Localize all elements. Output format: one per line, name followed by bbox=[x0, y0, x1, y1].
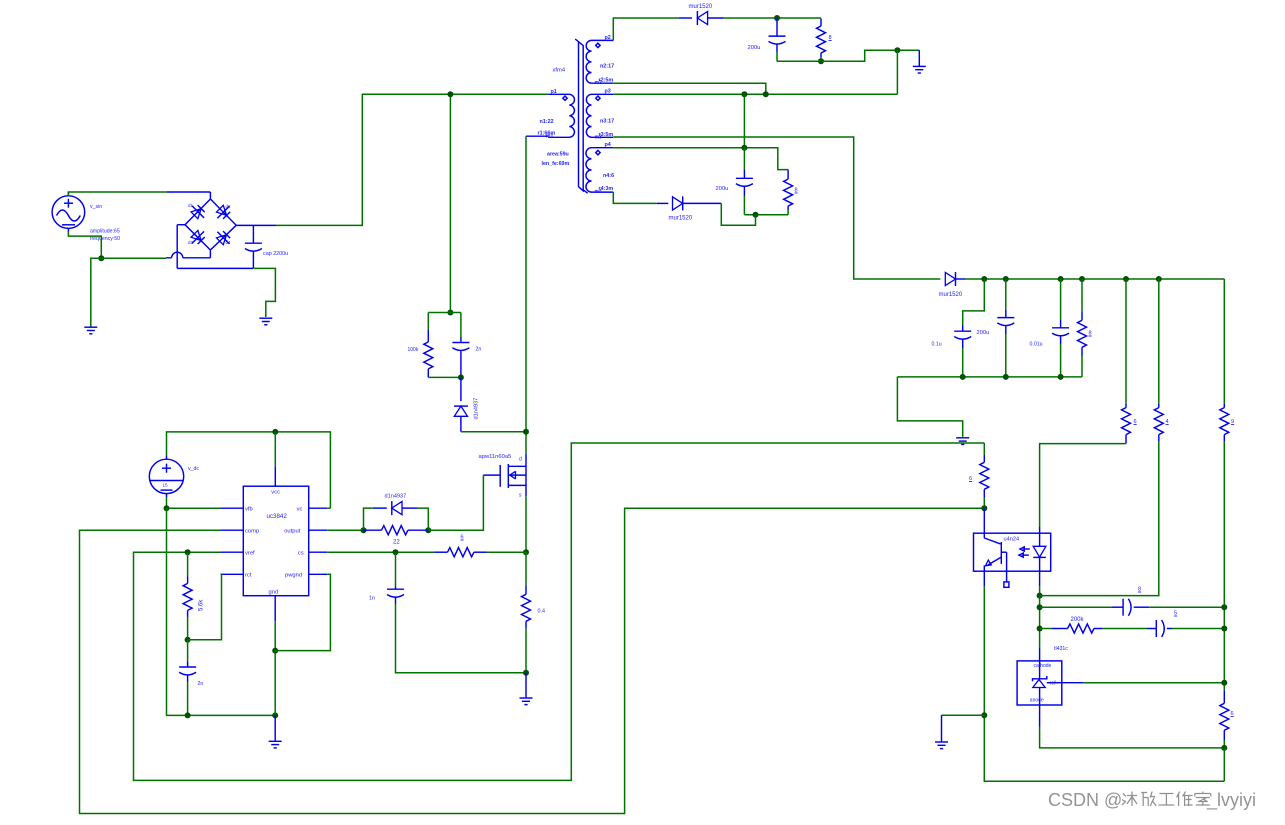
wire p3top to p4top bbox=[743, 94, 745, 147]
svg-text:s: s bbox=[519, 493, 522, 499]
svg-text:n3:17: n3:17 bbox=[600, 118, 614, 124]
wire emitter gnd stub bbox=[942, 715, 985, 741]
svg-text:200u: 200u bbox=[977, 330, 990, 336]
svg-text:d1n4937: d1n4937 bbox=[385, 494, 407, 500]
svg-text:xfm4: xfm4 bbox=[553, 68, 566, 74]
svg-text:rct: rct bbox=[245, 573, 252, 579]
wire LED cathode down bbox=[1039, 586, 1041, 595]
capacitor 8 comp bbox=[1040, 587, 1225, 616]
wire source top to bridge bbox=[68, 192, 210, 199]
MOSFET apw11n60a5 bbox=[479, 454, 527, 499]
wire divider to bottom rail bbox=[1223, 748, 1225, 781]
wire p2 top to diode bbox=[613, 18, 678, 40]
resistor 200k + capacitor 5 comp bbox=[1040, 611, 1225, 638]
svg-text:cap 2200u: cap 2200u bbox=[263, 251, 288, 257]
node vref bbox=[185, 549, 191, 555]
svg-text:200u: 200u bbox=[748, 45, 761, 51]
TL431 tl431c bbox=[1017, 646, 1068, 705]
ground controller bbox=[269, 715, 282, 748]
node gnd rail bbox=[272, 712, 278, 718]
svg-text:cathode: cathode bbox=[1034, 663, 1052, 669]
node output left bbox=[361, 527, 367, 533]
wire diode to node1 bbox=[724, 17, 821, 19]
svg-text:200u: 200u bbox=[716, 186, 729, 192]
svg-text:vref: vref bbox=[245, 551, 255, 557]
node emitter gnd bbox=[981, 712, 987, 718]
node vcc bbox=[272, 429, 278, 435]
svg-text:200k: 200k bbox=[1071, 617, 1085, 623]
node gnd top-right bbox=[894, 47, 900, 53]
svg-text:d: d bbox=[519, 457, 522, 463]
svg-text:ref: ref bbox=[1050, 681, 1056, 687]
resistor R7 divider bottom bbox=[1220, 690, 1234, 748]
svg-text:d3: d3 bbox=[188, 240, 194, 245]
wire opto emitter to gnd bbox=[984, 586, 1224, 781]
wire p3 top row bbox=[613, 93, 897, 95]
svg-text:n4:6: n4:6 bbox=[603, 173, 614, 179]
node cs bbox=[393, 549, 399, 555]
diode d1n4937 gate bbox=[373, 494, 418, 516]
svg-text:CSDN @: CSDN @ bbox=[1048, 790, 1122, 810]
wire out1 bottom to ground node bbox=[777, 50, 919, 61]
resistor 22 gate bbox=[364, 526, 429, 546]
capacitor 200u output1 bbox=[748, 18, 786, 61]
svg-text:p2: p2 bbox=[605, 35, 611, 41]
wire rail to 0.1u bbox=[963, 279, 985, 325]
svg-text:anode: anode bbox=[1030, 698, 1044, 704]
node LED cathode bbox=[1037, 593, 1043, 599]
wire network verticals bbox=[364, 508, 429, 530]
node output right bbox=[425, 527, 431, 533]
wire vref row long loop bbox=[134, 443, 985, 780]
node divC bbox=[1221, 626, 1227, 632]
svg-text:1n: 1n bbox=[369, 596, 375, 602]
wire output pin to network bbox=[327, 529, 363, 531]
wire anode row bbox=[1040, 705, 1225, 748]
svg-text:_lvyiyi: _lvyiyi bbox=[1206, 790, 1256, 811]
node snubber bbox=[447, 310, 453, 316]
wire vc stub joint bbox=[327, 507, 330, 509]
resistor 5.6k bbox=[183, 552, 204, 640]
wire source down bbox=[525, 496, 527, 552]
node row B bbox=[1037, 604, 1043, 610]
wire p1 bottom to drain line bbox=[526, 136, 548, 454]
wire output gnd rail bbox=[897, 377, 1082, 437]
diode d3 bbox=[188, 228, 207, 247]
wire rct bbox=[188, 574, 222, 640]
wire vcc rail bbox=[167, 432, 331, 508]
wire comp row long loop bbox=[80, 508, 985, 813]
svg-text:2n: 2n bbox=[198, 681, 204, 687]
wire bias row A bbox=[1040, 441, 1159, 596]
svg-text:m2: m2 bbox=[595, 80, 602, 86]
wire LED anode chain bbox=[1040, 444, 1126, 534]
node p2p3 bbox=[763, 91, 769, 97]
svg-text:v_sin: v_sin bbox=[90, 204, 102, 210]
capacitor 0.1u bbox=[932, 325, 972, 377]
capacitor 1n cs bbox=[369, 552, 526, 673]
wire bridge DC+ to primary bbox=[236, 94, 548, 225]
node out1 bottom bbox=[818, 58, 824, 64]
resistor R5 bias bbox=[1154, 279, 1168, 441]
wire node to ground bbox=[91, 258, 102, 326]
svg-text:d4: d4 bbox=[226, 240, 232, 245]
node ref bbox=[1221, 680, 1227, 686]
optocoupler u4n24 bbox=[974, 508, 1051, 587]
resistor vref pullup bbox=[969, 443, 989, 508]
wire ref row bbox=[1062, 682, 1225, 684]
resistor R6 divider top bbox=[1220, 279, 1234, 441]
svg-text:vcc: vcc bbox=[271, 490, 280, 496]
node rct junction bbox=[185, 637, 191, 643]
svg-text:p4: p4 bbox=[605, 142, 611, 148]
svg-text:len_fe:69m: len_fe:69m bbox=[542, 161, 570, 167]
ground AC input bbox=[84, 327, 97, 334]
capacitor cap 2200u bbox=[245, 225, 288, 268]
wire out2 bottom rail bbox=[744, 214, 788, 216]
watermark CSDN bbox=[1048, 790, 1256, 811]
svg-text:uc3842: uc3842 bbox=[267, 513, 288, 520]
svg-text:d2: d2 bbox=[226, 204, 232, 209]
capacitor 2n timing bbox=[179, 640, 203, 716]
ground sense bbox=[520, 673, 533, 705]
svg-text:d1n4937: d1n4937 bbox=[474, 398, 480, 420]
IC uc3842 bbox=[221, 486, 328, 621]
transformer xfm4 core bbox=[553, 39, 588, 193]
svg-text:p3: p3 bbox=[605, 89, 611, 95]
svg-text:100k: 100k bbox=[408, 347, 419, 353]
svg-text:m4: m4 bbox=[595, 189, 602, 195]
svg-text:vc: vc bbox=[297, 507, 303, 513]
resistor 8 output3 bbox=[1078, 279, 1092, 377]
resistor 100k snubber bbox=[408, 330, 433, 377]
ground secondary bbox=[935, 742, 948, 749]
node gnd rail left bbox=[185, 712, 191, 718]
capacitor 200u output3 bbox=[977, 279, 1015, 377]
resistor R4 LED-anode side bbox=[1122, 279, 1137, 444]
node p3 cap2 bbox=[741, 91, 747, 97]
svg-text:cs: cs bbox=[298, 551, 304, 557]
resistor 8 output1 bbox=[817, 19, 832, 62]
resistor 8 output2 bbox=[784, 170, 798, 215]
svg-text:area:59u: area:59u bbox=[547, 152, 569, 158]
capacitor 0.01u bbox=[1030, 279, 1070, 377]
capacitor 2n snubber bbox=[452, 337, 481, 377]
wire Vin+ down to snubber bbox=[449, 94, 451, 312]
svg-text:p1: p1 bbox=[551, 89, 557, 95]
wire snubber RC bottom bbox=[428, 376, 461, 378]
svg-text:2n: 2n bbox=[476, 347, 482, 353]
wire gnd pin down bbox=[274, 621, 276, 715]
wire diode2 to out2 node bbox=[721, 203, 755, 225]
svg-text:apw11n60a5: apw11n60a5 bbox=[479, 454, 512, 460]
svg-text:22: 22 bbox=[393, 540, 400, 546]
diode d1n4937 snubber bbox=[454, 377, 480, 431]
winding p3 bbox=[586, 89, 614, 141]
svg-text:mur1520: mur1520 bbox=[689, 4, 713, 10]
winding p1 primary bbox=[538, 89, 575, 167]
wire p4 top row bbox=[613, 148, 788, 170]
node out2 bottom bbox=[753, 212, 759, 218]
node source bbox=[523, 549, 529, 555]
svg-text:0.4: 0.4 bbox=[538, 609, 546, 615]
wire snubber to drain bbox=[461, 431, 526, 433]
node divB bbox=[1221, 604, 1227, 610]
svg-text:15: 15 bbox=[163, 483, 169, 488]
svg-text:u4n24: u4n24 bbox=[1004, 537, 1020, 543]
node snubber top bbox=[447, 91, 453, 97]
svg-text:0.01u: 0.01u bbox=[1030, 342, 1043, 348]
ground bulk cap bbox=[259, 318, 272, 325]
svg-text:n1:22: n1:22 bbox=[540, 119, 554, 125]
svg-text:comp: comp bbox=[245, 529, 259, 535]
svg-text:amplitude:65: amplitude:65 bbox=[90, 229, 120, 235]
source V_sin bbox=[52, 192, 120, 242]
wire p2 bottom to p3 row bbox=[613, 83, 766, 94]
svg-text:frequency:50: frequency:50 bbox=[90, 236, 120, 242]
node opto collector bbox=[981, 505, 987, 511]
node drain snubber bbox=[523, 429, 529, 435]
svg-text:output: output bbox=[284, 529, 301, 535]
wire snubber RC top bbox=[428, 313, 461, 338]
wire cs row bbox=[327, 551, 526, 553]
svg-text:gnd: gnd bbox=[269, 589, 279, 595]
wire node down to p3 row bbox=[896, 50, 898, 94]
svg-text:0.1u: 0.1u bbox=[932, 342, 942, 348]
source v_dc bbox=[149, 456, 199, 497]
node snubber diode bbox=[458, 374, 464, 380]
wire p4 bottom to diode2 bbox=[613, 192, 657, 203]
capacitor 200u output2 bbox=[716, 148, 753, 215]
diode mur1520 output2 bbox=[657, 196, 722, 221]
wire p3 bottom long bbox=[613, 137, 940, 279]
wire divider vertical bbox=[1223, 441, 1225, 690]
svg-text:v_dc: v_dc bbox=[188, 466, 199, 472]
node vfb bbox=[164, 505, 170, 511]
wire source bottom to node bbox=[68, 231, 101, 258]
svg-text:tl431c: tl431c bbox=[1054, 646, 1068, 652]
wire bottom rail bridge bbox=[177, 267, 253, 269]
wire main output rail bbox=[965, 278, 1224, 280]
diode d1 bbox=[188, 203, 207, 222]
wire v_dc- to vfb bbox=[167, 497, 221, 508]
node AC neutral bbox=[98, 255, 104, 261]
ground output1 bbox=[913, 50, 926, 73]
svg-text:m3: m3 bbox=[595, 135, 602, 141]
diode d2 bbox=[214, 203, 233, 222]
wire vcc stub bbox=[274, 432, 276, 486]
node anode row bbox=[1221, 745, 1227, 751]
svg-text:vfb: vfb bbox=[245, 507, 253, 513]
wire to gate bbox=[428, 475, 483, 530]
winding p2 bbox=[586, 35, 614, 86]
diode mur1520 output3 bbox=[939, 272, 966, 298]
svg-text:pwgnd: pwgnd bbox=[285, 573, 302, 579]
node row C bbox=[1037, 626, 1043, 632]
rail nodes bbox=[981, 276, 987, 282]
node sense gnd bbox=[523, 670, 529, 676]
svg-text:d1: d1 bbox=[188, 203, 194, 208]
resistor 6 cs filter bbox=[434, 535, 486, 557]
svg-text:mur1520: mur1520 bbox=[669, 216, 693, 222]
svg-text:5.6k: 5.6k bbox=[199, 599, 205, 611]
winding p4 bbox=[586, 142, 614, 195]
wire pwgnd bbox=[275, 574, 330, 650]
diode mur1520 output1 bbox=[679, 4, 724, 25]
svg-text:mur1520: mur1520 bbox=[939, 292, 963, 298]
wire v_dc- down to gnd rail bbox=[167, 508, 276, 715]
resistor 0.4 sense bbox=[522, 552, 546, 673]
ground output3 bbox=[956, 438, 969, 445]
bridge rectifier diamond bbox=[177, 199, 236, 268]
node gnd pwgnd bbox=[272, 648, 278, 654]
node cap2 top bbox=[741, 145, 747, 151]
node out1 bbox=[774, 15, 780, 21]
wire cap to ground bbox=[254, 268, 275, 317]
svg-text:n2:17: n2:17 bbox=[600, 63, 614, 69]
wire node to bridge AC with hop bbox=[101, 251, 210, 259]
diode d4 bbox=[214, 229, 233, 248]
wire cathode to TL431 bbox=[1039, 596, 1041, 661]
